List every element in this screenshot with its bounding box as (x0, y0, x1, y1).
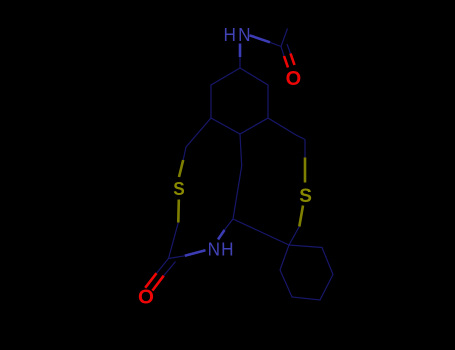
wire: M to O double bond line2 navy part (164, 262, 176, 276)
wire: M to NH navy half (169, 256, 185, 259)
wire: M to O double bond line1 navy part (157, 259, 169, 274)
svg-text:O: O (138, 286, 154, 309)
wire: S left to carbonyl M navy half (169, 223, 179, 259)
svg-text:N: N (208, 239, 220, 260)
wire: acetyl C=O line1 navy part (281, 47, 284, 57)
wire: S right to P1 olive half (299, 206, 303, 227)
svg-text:H: H (221, 239, 233, 260)
wire: S right to P1 navy half (289, 227, 299, 246)
wire: N to acetyl C navy half (270, 42, 281, 46)
wire: G to S right olive half (304, 158, 307, 183)
svg-text:N: N (238, 24, 250, 45)
wire: central C to NH blue half (218, 230, 225, 240)
ring: cyclohexane hexagon2 bottom right (280, 245, 333, 300)
wire: hexagon1 C to G navy (268, 118, 305, 140)
wire: central C to X to P1 (233, 219, 289, 245)
wire: M to O double bond line1 red part (145, 273, 156, 288)
svg-text:S: S (299, 186, 312, 207)
wire: long bridge bond D to central C (233, 134, 242, 219)
wire: N to acetyl C blue half (250, 35, 271, 42)
ring: cyclohexane hexagon1 (211, 68, 268, 134)
wire: E to V1 navy (183, 118, 211, 160)
wire: V1 to S left olive half (179, 160, 183, 177)
wire: M to O double bond line2 red part (152, 276, 163, 291)
svg-text:O: O (286, 68, 302, 90)
wire: acetyl C=O line2 navy part (287, 44, 291, 54)
svg-text:H: H (224, 24, 236, 45)
svg-text:S: S (173, 179, 185, 200)
wire: acetyl methyl stub (281, 29, 288, 47)
wire: M to NH blue half (185, 250, 206, 255)
wire: S left down olive vertical (177, 200, 180, 223)
wire: N down bond navy half to ring vertex A (239, 57, 241, 68)
wire: acetyl C=O line2 red part (291, 54, 295, 66)
wire: G to S right navy half (304, 140, 306, 158)
wire: acetyl C=O line1 red part (284, 56, 288, 68)
wire: N-H down bond blue half (239, 44, 242, 58)
wire: central C to NH navy half (224, 219, 233, 231)
